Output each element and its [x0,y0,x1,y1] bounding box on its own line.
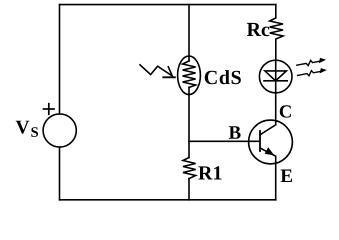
voltage source VS [43,114,76,147]
wire emitter to bottom rail [275,156,277,200]
light arrow from LED upper [297,58,326,66]
wire top rail [60,4,276,6]
light arrow from LED lower [298,68,327,76]
label C [280,105,291,117]
wire base [189,140,260,142]
label R1 [198,166,221,179]
wire bottom rail [60,199,276,201]
wire middle branch to bottom rail [188,179,190,200]
label E [281,170,292,182]
LED D1 [259,60,292,93]
label Rc [247,23,269,36]
resistor R1 [183,158,196,179]
light arrow onto CdS [140,65,175,78]
wire middle branch lower [188,95,190,158]
photoresistor CdS [178,56,201,95]
wire LED to transistor collector [275,93,277,125]
transistor Q1 [249,120,293,164]
label VS [16,121,38,137]
label CdS [205,70,241,84]
plus sign of source [44,104,55,115]
wire middle branch upper [188,5,190,57]
wire left rail upper [59,5,61,114]
wire left rail lower [59,147,61,200]
resistor Rc [270,5,283,61]
label B [229,126,241,138]
